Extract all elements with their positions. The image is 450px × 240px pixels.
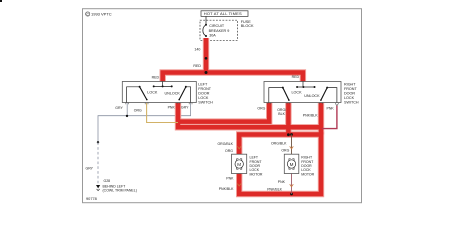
svg-text:PNK/BLK: PNK/BLK	[219, 187, 234, 191]
unlock arm right	[321, 88, 327, 101]
wire halo upper band and org riser	[176, 103, 269, 122]
border frame	[83, 9, 362, 203]
svg-text:30A: 30A	[209, 34, 216, 38]
svg-text:ORG: ORG	[281, 149, 289, 153]
right front door lock switch S2	[264, 82, 341, 106]
lock arm left	[140, 87, 147, 100]
gry dashed wire to ground	[97, 142, 99, 184]
node org/blk to band	[287, 133, 290, 136]
svg-text:FRONT: FRONT	[198, 87, 211, 91]
red wire main band to both switches	[163, 73, 303, 83]
svg-text:ORG: ORG	[134, 108, 142, 112]
svg-text:ORG/BLK: ORG/BLK	[217, 142, 233, 146]
svg-text:PNK: PNK	[168, 106, 176, 110]
svg-text:(COWL TRIM PANEL): (COWL TRIM PANEL)	[103, 189, 137, 193]
label right front door lock switch	[344, 82, 359, 104]
node gry junction	[126, 115, 128, 117]
svg-text:LEFT: LEFT	[198, 82, 208, 86]
svg-text:DOOR: DOOR	[198, 91, 209, 95]
corner speck	[0, 0, 2, 2]
left front door lock motor M1	[232, 154, 247, 173]
label right front door lock motor	[301, 156, 314, 177]
svg-text:PNK/BLK: PNK/BLK	[303, 113, 318, 117]
wire halo main band	[163, 73, 303, 83]
svg-text:PNK: PNK	[278, 180, 286, 184]
wire pin1 to pivot	[127, 87, 140, 103]
svg-text:PNK: PNK	[226, 177, 234, 181]
wire halo motor loop	[239, 135, 321, 195]
wire feed from hot box	[205, 16, 207, 24]
svg-text:ORG: ORG	[257, 106, 265, 110]
svg-text:SWITCH: SWITCH	[344, 100, 359, 104]
svg-text:BLK: BLK	[278, 112, 285, 116]
wire unlock pivot to pin4	[186, 87, 191, 103]
connector on left motor top wire	[237, 146, 241, 148]
red wire breaker feed	[204, 38, 209, 73]
wire halo pnk/blk drop	[318, 103, 324, 135]
unlock arm left	[179, 87, 186, 100]
svg-text:ORG: ORG	[225, 149, 233, 153]
svg-text:M: M	[290, 162, 294, 167]
svg-text:LOCK: LOCK	[198, 96, 209, 100]
connector on right motor bottom wire	[290, 184, 294, 186]
svg-text:FRONT: FRONT	[344, 87, 357, 91]
svg-text:DOOR: DOOR	[344, 91, 355, 95]
circuit breaker 9	[203, 24, 229, 38]
label left front door lock motor	[250, 156, 263, 177]
svg-text:CIRCUIT: CIRCUIT	[209, 24, 225, 28]
wire halo pnk drop and lower band	[178, 103, 321, 128]
svg-text:LOCK: LOCK	[344, 96, 355, 100]
right motor top wire	[291, 135, 293, 155]
svg-text:ORG/BLK: ORG/BLK	[271, 142, 287, 146]
feed stub	[162, 82, 164, 87]
fuse block label	[241, 20, 254, 28]
node right motor bottom tap	[290, 193, 293, 196]
fuse block dashed box	[200, 20, 238, 40]
left front door lock switch S1	[122, 82, 196, 105]
svg-text:BREAKER 9: BREAKER 9	[209, 29, 230, 33]
right motor bottom wire	[291, 174, 293, 195]
svg-text:G28: G28	[104, 179, 111, 183]
svg-text:1993 VPTC: 1993 VPTC	[91, 12, 112, 17]
splice on feed	[205, 57, 208, 60]
connector on left motor bottom wire	[237, 184, 241, 186]
svg-text:UNLOCK: UNLOCK	[165, 91, 181, 95]
svg-text:RED: RED	[292, 75, 300, 79]
node main band junction	[205, 71, 208, 74]
svg-text:RIGHT: RIGHT	[344, 82, 356, 86]
svg-text:SWITCH: SWITCH	[198, 100, 213, 104]
svg-text:LOCK: LOCK	[147, 91, 158, 95]
svg-text:90778: 90778	[86, 196, 97, 201]
svg-text:PNK: PNK	[327, 107, 335, 111]
red wire motor loop	[239, 135, 321, 195]
red power wire halo group	[163, 38, 321, 194]
red wire upper band + org riser to right switch	[176, 103, 269, 122]
label left front door lock switch	[198, 82, 213, 104]
wire pin1 to pivot	[269, 88, 283, 103]
svg-text:140: 140	[194, 48, 200, 52]
red wire left pnk drop + lower band	[178, 103, 321, 128]
svg-text:RED: RED	[193, 64, 201, 68]
lock arm right	[283, 88, 289, 101]
ground G28	[96, 179, 137, 192]
org wire from left switch	[147, 103, 178, 123]
bus wire	[297, 86, 314, 88]
bus wire	[154, 85, 172, 87]
right front door lock motor M2	[284, 154, 299, 173]
svg-text:C: C	[86, 13, 89, 17]
svg-text:GRY: GRY	[181, 106, 189, 110]
svg-text:UNLOCK: UNLOCK	[304, 94, 320, 98]
node gry splice	[97, 141, 99, 143]
svg-text:HOT AT ALL TIMES: HOT AT ALL TIMES	[204, 11, 242, 16]
svg-text:BLOCK: BLOCK	[241, 24, 254, 28]
svg-text:GRY: GRY	[115, 106, 123, 110]
HOT AT ALL TIMES box	[201, 11, 248, 17]
node right motor top tap	[290, 133, 293, 136]
red wire org/blk drop	[286, 103, 291, 135]
svg-text:LOCK: LOCK	[292, 90, 303, 94]
wire unlock pivot to pin4	[327, 88, 337, 103]
svg-text:GRY: GRY	[86, 167, 94, 171]
wire halo org/blk drop	[285, 103, 291, 135]
svg-text:M: M	[237, 162, 241, 167]
pnk wire right switch	[322, 106, 337, 129]
svg-text:MOTOR: MOTOR	[301, 172, 314, 176]
svg-text:MOTOR: MOTOR	[250, 172, 263, 176]
svg-text:PNK/BLK: PNK/BLK	[267, 188, 282, 192]
connector on right motor top wire	[290, 146, 294, 148]
gry drop pin1	[126, 103, 128, 116]
gry ground bus	[98, 103, 191, 143]
wire halo breaker feed	[203, 38, 209, 73]
feed stub	[302, 82, 304, 88]
red wire pnk/blk drop	[319, 103, 324, 135]
svg-text:RED: RED	[152, 75, 160, 79]
pin contacts right switch	[268, 103, 339, 106]
copyright mark	[86, 12, 112, 17]
pin contacts left switch	[126, 103, 192, 105]
